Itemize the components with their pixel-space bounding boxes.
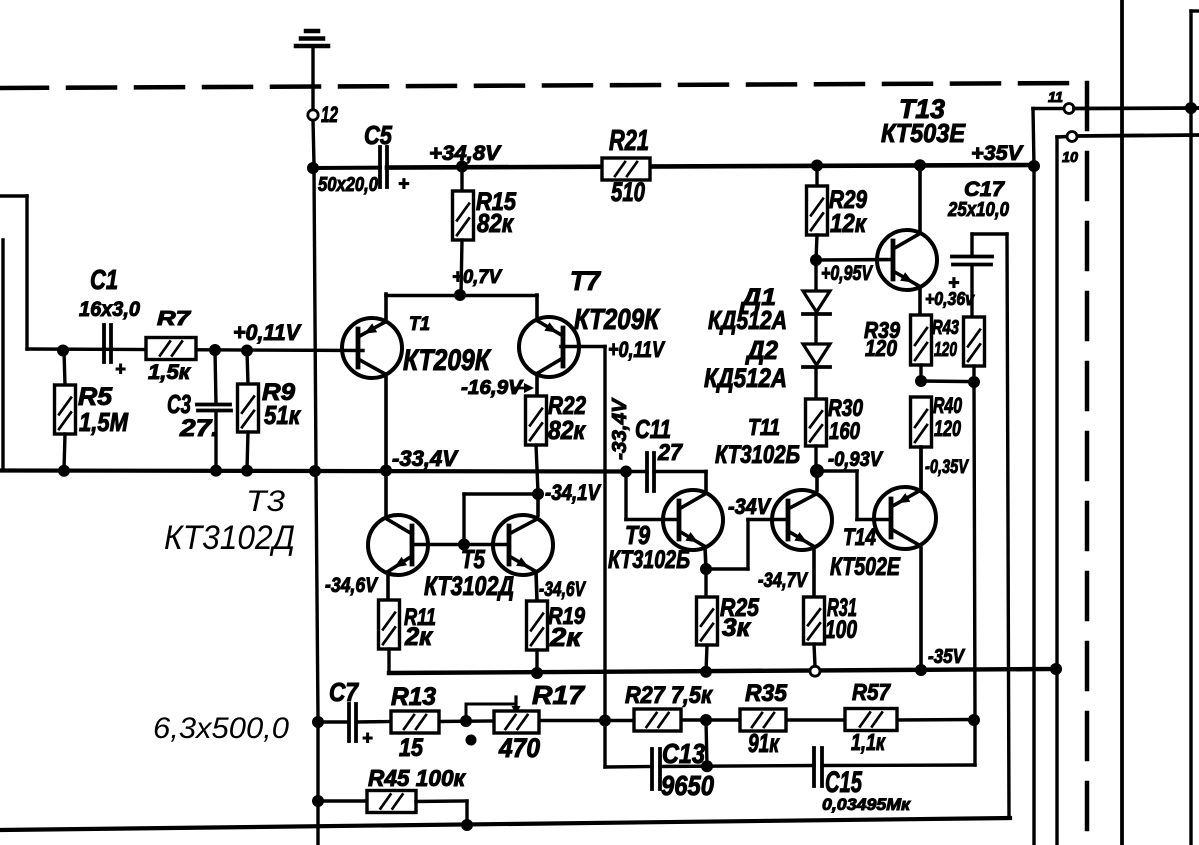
label R7 value (148, 361, 191, 384)
svg-text:15: 15 (399, 734, 424, 762)
label R30 value (829, 418, 861, 445)
svg-text:КТ503Е: КТ503Е (881, 118, 966, 148)
svg-text:11: 11 (1048, 89, 1063, 106)
wire T7 base link (561, 347, 605, 768)
node junction R43 bottom (968, 376, 980, 388)
label C1 plus (115, 359, 126, 379)
capacitor C11 (626, 453, 706, 491)
wire T13 collector lead (918, 165, 922, 232)
label C7 (329, 677, 359, 707)
svg-text:12к: 12к (830, 208, 868, 238)
node junction at 12 bus (307, 162, 319, 174)
label R22 value (548, 415, 587, 445)
resistor R9 (238, 351, 259, 470)
svg-text:1,1к: 1,1к (851, 729, 886, 755)
label R9 (262, 379, 296, 406)
node junction R15 top (456, 161, 468, 173)
svg-text:2к: 2к (549, 622, 583, 652)
ground (296, 31, 328, 46)
label R43 (932, 317, 959, 339)
wire T9 collector lead (704, 472, 708, 493)
label T7 type (574, 304, 661, 336)
svg-text:82к: 82к (477, 208, 515, 238)
node junction R27-R35 (700, 714, 712, 726)
svg-text:-35V: -35V (928, 646, 965, 668)
label R9 value (264, 400, 302, 430)
node junction C3 bottom (210, 465, 222, 477)
label R39 (864, 317, 900, 343)
wire terminal 11 left (1033, 109, 1064, 845)
label R7 (157, 308, 191, 330)
diode D1 (803, 291, 830, 344)
resistor R57 (845, 709, 897, 731)
label C3 value (179, 415, 219, 442)
wire C15 right up (822, 763, 975, 767)
svg-text:+35V: +35V (971, 142, 1024, 165)
svg-text:120: 120 (934, 339, 957, 361)
wire T9 base wire (626, 472, 679, 520)
resistor R25 (697, 569, 718, 672)
resistor R7 (146, 338, 196, 360)
terminal 11 (1064, 104, 1074, 114)
label R31 (827, 594, 857, 622)
label C1 (90, 264, 118, 295)
label C17 (964, 178, 1005, 201)
svg-text:Т1: Т1 (409, 314, 430, 335)
label 6.3x500.0 (153, 712, 289, 745)
label T14 (843, 524, 876, 551)
wire -35V rail (389, 669, 1056, 673)
label T11 type (715, 441, 800, 469)
node junction R25 bottom (700, 666, 712, 678)
capacitor C13 (652, 749, 660, 789)
wire T7 collector lead (535, 374, 539, 396)
resistor R21 (602, 158, 650, 180)
svg-text:С13: С13 (662, 738, 705, 769)
label D2 (745, 335, 778, 365)
resistor R19 (527, 601, 548, 673)
wire R45 left (318, 799, 367, 802)
resistor R27 (634, 709, 681, 731)
label C15 value (822, 795, 911, 814)
svg-text:КД512А: КД512А (708, 305, 787, 335)
terminal 10 (1067, 132, 1077, 142)
terminal 12 (308, 110, 318, 120)
svg-text:3к: 3к (722, 614, 751, 642)
wire R43 down long (974, 382, 975, 765)
label T14 type (830, 553, 901, 581)
label +0.11V input (233, 320, 302, 345)
wire T9 emitter lead (705, 547, 706, 569)
wire T13 base (816, 258, 893, 262)
svg-text:16x3,0: 16x3,0 (79, 298, 140, 321)
label T5 (461, 544, 485, 574)
node junction R57 right (968, 714, 980, 726)
wire feedback rail (318, 720, 974, 723)
svg-text:+: + (398, 174, 409, 195)
node junction R39 bottom (915, 375, 927, 387)
label R11 (404, 604, 436, 631)
wire D1 feed (814, 260, 817, 291)
svg-text:+0,95V: +0,95V (821, 262, 874, 285)
label R40 value (934, 416, 962, 441)
label R15 (476, 188, 517, 216)
wire T11 collector lead (815, 471, 819, 490)
label R35 (745, 680, 788, 707)
label R57 (852, 679, 891, 705)
wire C13 branch left (605, 765, 652, 769)
svg-text:51к: 51к (264, 400, 302, 430)
label terminal 11 (1048, 89, 1063, 106)
node junction +35V end (1028, 160, 1040, 172)
svg-text:+0,36v: +0,36v (925, 289, 975, 309)
node junction term11 bus (1185, 102, 1197, 114)
label R11 value (404, 623, 433, 651)
wire R35 junction down (706, 720, 707, 766)
svg-text:Т5: Т5 (461, 544, 485, 574)
node junction R30 bottom big (810, 464, 824, 478)
resistor R22 (526, 396, 547, 492)
svg-text:КТ209К: КТ209К (574, 304, 661, 336)
resistor R11 (379, 600, 400, 673)
wire T5 collector lead (536, 494, 540, 515)
svg-text:470: 470 (498, 733, 540, 763)
svg-text:1,5М: 1,5М (79, 407, 129, 437)
wire terminal 10 right (1078, 135, 1199, 136)
transistor T3 (368, 515, 428, 575)
label T13 (899, 94, 945, 124)
svg-text:R57: R57 (852, 679, 891, 705)
wire T11 base wire (748, 520, 788, 570)
label T3 type big (164, 519, 295, 557)
svg-text:+: + (115, 359, 126, 379)
wire T3-T5 base wire (412, 543, 509, 547)
label R5 value (79, 407, 129, 437)
label R43 value (934, 339, 957, 361)
svg-text:82к: 82к (548, 415, 587, 445)
label T11 (748, 414, 780, 440)
svg-text:КТ3102Б: КТ3102Б (608, 546, 690, 574)
wire R39-R43 tie (921, 379, 974, 383)
wire T5 emitter lead (536, 572, 537, 601)
label +0.95V (821, 262, 874, 285)
svg-text:Т14: Т14 (843, 524, 876, 551)
svg-text:R45 100к: R45 100к (368, 765, 466, 791)
node junction T9 emitter (700, 563, 712, 575)
node junction T1 collector at rail (380, 465, 392, 477)
capacitor C15 (814, 748, 822, 786)
svg-text:510: 510 (611, 177, 645, 207)
label R39 value (865, 335, 897, 361)
svg-text:С5: С5 (364, 120, 392, 150)
wire vertical bus line B (1191, 11, 1199, 845)
svg-text:27: 27 (657, 439, 683, 465)
wire R22 to T5 bases (464, 494, 538, 545)
label R35 value (748, 728, 780, 758)
resistor R40 (911, 397, 932, 489)
svg-text:КТ3102Д: КТ3102Д (164, 519, 295, 557)
label R19 value (549, 622, 583, 652)
resistor R43 (964, 317, 985, 382)
node junction T14 emitter (915, 664, 927, 676)
svg-text:0,03495Мк: 0,03495Мк (822, 795, 911, 814)
label R21 (609, 125, 649, 157)
svg-text:2к: 2к (404, 623, 433, 651)
node junction R29 top (811, 160, 823, 172)
wire left edge vertical (1, 240, 4, 470)
wire input top-left corner (0, 196, 363, 351)
label C11 value (657, 439, 683, 465)
label R21 value (611, 177, 645, 207)
svg-text:120: 120 (865, 335, 897, 361)
svg-text:27.: 27. (179, 415, 219, 442)
label C5 value (318, 174, 378, 196)
svg-text:+: + (362, 728, 373, 748)
node junction R27 left (599, 715, 611, 727)
label R25 (720, 594, 760, 622)
label R13 value (399, 734, 424, 762)
svg-text:Т7: Т7 (570, 266, 602, 296)
svg-text:-0,35V: -0,35V (925, 457, 969, 478)
wire T3 emitter lead (386, 572, 390, 600)
label T9 (625, 520, 650, 550)
node junction T3/T5 base tie (458, 539, 470, 551)
wire R45 right (416, 801, 467, 825)
transistor T7 (519, 317, 579, 377)
svg-text:С7: С7 (329, 677, 359, 707)
wire T1 emitter lead (384, 294, 388, 322)
node junction R9 bottom (241, 465, 253, 477)
resistor R13 (391, 711, 439, 733)
node junction C7 left (312, 716, 324, 728)
node junction main vert at rail (309, 465, 321, 477)
resistor R31 (804, 547, 825, 666)
label T9 type (608, 546, 690, 574)
label -33.4V (392, 446, 459, 471)
resistor R17 trimmer (494, 711, 539, 733)
label T1 (409, 314, 430, 335)
terminal R31 bottom open (810, 666, 820, 676)
wire ground stem / main left vertical (313, 46, 318, 845)
svg-text:-34,7V: -34,7V (758, 569, 809, 592)
label C1 value (79, 298, 140, 321)
svg-text:-34,1V: -34,1V (545, 480, 602, 505)
capacitor C17 (952, 234, 992, 317)
label C11 (635, 414, 671, 444)
label C17 plus (948, 273, 959, 294)
svg-text:R35: R35 (745, 680, 788, 707)
node junction C3 top (209, 344, 221, 356)
svg-text:-33,4V: -33,4V (609, 397, 631, 460)
label C13 (662, 738, 705, 769)
label T13 type (881, 118, 966, 148)
svg-text:91к: 91к (748, 728, 780, 758)
svg-text:12: 12 (321, 102, 339, 127)
node junction C13 right (701, 760, 713, 772)
svg-text:-34V: -34V (728, 494, 772, 519)
label -0.35V (925, 457, 969, 478)
svg-text:КТ502Е: КТ502Е (830, 553, 901, 581)
wire terminal 10 left (1057, 137, 1067, 845)
svg-text:-0,93V: -0,93V (828, 448, 884, 471)
label R25 value (722, 614, 751, 642)
wire T14 emitter top lead (919, 447, 923, 488)
svg-text:КД512А: КД512А (704, 363, 787, 393)
svg-text:R13: R13 (391, 683, 436, 711)
wire vertical bus line A (1120, 0, 1124, 845)
node junction +0.7V (454, 289, 466, 301)
transistor T1 (342, 318, 402, 378)
wire T3 top lead (384, 470, 388, 517)
label R13 (391, 683, 436, 711)
wire dashed block boundary top (0, 83, 1087, 88)
svg-text:Д2: Д2 (745, 335, 778, 365)
label -34.6V left (325, 574, 379, 597)
resistor R35 (740, 709, 786, 731)
wire T9-T11 emitter link (706, 567, 748, 570)
label -16.9V arrow (461, 377, 534, 399)
wire T14 collector lead (919, 548, 923, 670)
node junction C11 branch (620, 466, 632, 478)
label C7 plus (362, 728, 373, 748)
resistor R39 (911, 315, 932, 381)
transistor T14 (874, 487, 936, 549)
capacitor C1 (104, 325, 111, 362)
svg-text:6,3x500,0: 6,3x500,0 (153, 712, 289, 745)
node adjust dot (466, 735, 477, 746)
node junction R22 bottom -34.1V (532, 488, 544, 500)
svg-text:-34,6V: -34,6V (539, 578, 586, 601)
diode D2 (803, 344, 830, 399)
svg-text:50x20,0: 50x20,0 (318, 174, 378, 196)
svg-text:-34,6V: -34,6V (325, 574, 379, 597)
svg-text:КТ209К: КТ209К (403, 344, 492, 377)
svg-text:R7: R7 (157, 308, 191, 330)
label +34.8V (429, 142, 502, 165)
resistor R29 (807, 165, 828, 260)
transistor T9 (663, 490, 723, 550)
wire +0.7V link (386, 294, 537, 298)
node junction R45 left (312, 795, 324, 807)
svg-text:С17: С17 (964, 178, 1005, 201)
wire T1 collector lead (384, 375, 388, 471)
label R17 value (498, 733, 540, 763)
wire rail to T14 base (817, 471, 891, 520)
label +0.11V T7 base (608, 337, 666, 362)
node junction R9 top (241, 345, 253, 357)
svg-text:160: 160 (829, 418, 861, 445)
wire +34.8V rail (313, 165, 1034, 168)
wire T13 emitter lead (918, 287, 922, 315)
wire R17 wiper (466, 697, 521, 721)
label R22 (548, 392, 586, 420)
label -33.4V vertical (609, 397, 631, 460)
label C15 (825, 766, 863, 799)
transistor T13 (877, 230, 937, 290)
svg-text:100: 100 (825, 616, 857, 644)
resistor R30 (806, 399, 827, 466)
wire C13 to C15 (660, 766, 814, 767)
label R15 value (477, 208, 515, 238)
label -0.93V (828, 448, 884, 471)
label D2 type (704, 363, 787, 393)
svg-text:R27 7,5к: R27 7,5к (625, 682, 714, 709)
svg-text:120: 120 (934, 416, 962, 441)
label -34V (728, 494, 772, 519)
wire dashed block boundary right (1085, 83, 1090, 845)
svg-text:С1: С1 (90, 264, 118, 295)
transistor T5 (493, 515, 553, 575)
node junction R45 bottom (461, 819, 473, 831)
resistor R15 (453, 166, 474, 294)
node junction T13 collector (914, 159, 926, 171)
wire T7 emitter lead (535, 295, 539, 321)
svg-text:Т11: Т11 (748, 414, 780, 440)
svg-text:R21: R21 (609, 125, 649, 157)
svg-text:+0,11V: +0,11V (608, 337, 666, 362)
label -34.1V (545, 480, 602, 505)
label T5 type (424, 571, 514, 601)
label C17 value (947, 199, 1009, 221)
node junction R5 bottom (58, 465, 70, 477)
label R31 value (825, 616, 857, 644)
label +0.7V (452, 267, 502, 288)
svg-text:9650: 9650 (661, 770, 714, 801)
label C3 (167, 389, 191, 419)
label R29 (829, 186, 867, 214)
capacitor C7 (349, 704, 356, 741)
label -34.6V right (539, 578, 586, 601)
label terminal 10 (1062, 149, 1079, 166)
label R27 (625, 682, 714, 709)
svg-text:R43: R43 (932, 317, 959, 339)
svg-text:+0,7V: +0,7V (452, 267, 502, 288)
resistor R5 (55, 351, 76, 470)
capacitor C5 (380, 147, 387, 187)
svg-text:R40: R40 (933, 393, 963, 418)
svg-text:+0,11V: +0,11V (233, 320, 302, 345)
node junction +0.95V (810, 254, 822, 266)
node junction R5 top (57, 345, 69, 357)
label R57 value (851, 729, 886, 755)
label C13 value (661, 770, 714, 801)
svg-text:+34,8V: +34,8V (429, 142, 502, 165)
transistor T11 (772, 490, 832, 550)
svg-text:-33,4V: -33,4V (392, 446, 459, 471)
svg-text:Т3: Т3 (246, 485, 285, 518)
node junction rail end (1050, 663, 1062, 675)
label D1 (740, 284, 776, 311)
svg-text:КТ3102Д: КТ3102Д (424, 571, 514, 601)
label R30 (828, 395, 864, 422)
svg-text:1,5к: 1,5к (148, 361, 191, 384)
label T1 type (403, 344, 492, 377)
svg-text:10: 10 (1062, 149, 1079, 166)
label R5 (78, 383, 113, 411)
label T3 big (246, 485, 285, 518)
label R29 value (830, 208, 868, 238)
wire -33.4V rail (0, 471, 626, 472)
label R40 (933, 393, 963, 418)
label C5 plus (398, 174, 409, 195)
label D1 type (708, 305, 787, 335)
resistor R45 (367, 791, 416, 813)
label -35V (928, 646, 965, 668)
label terminal 12 (321, 102, 339, 127)
node junction R19 bottom (531, 667, 543, 679)
svg-text:КТ3102Б: КТ3102Б (715, 441, 800, 469)
label R17 (532, 680, 586, 710)
